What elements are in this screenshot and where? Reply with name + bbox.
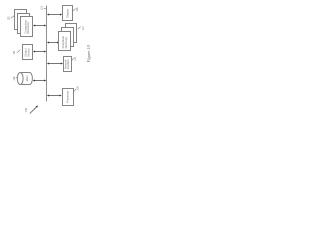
stack A back rect — [15, 10, 27, 30]
box G — [63, 89, 74, 106]
box F — [64, 57, 72, 72]
box B — [23, 45, 33, 60]
label 108 (box D) — [73, 7, 79, 12]
svg-text:100: 100 — [25, 107, 28, 112]
wire: bus to stack E (double arrow) — [47, 42, 59, 44]
svg-text:Device: Device — [27, 48, 31, 57]
label 114 (box F) — [72, 56, 78, 60]
svg-text:110: 110 — [41, 6, 44, 10]
stack E front rect with text — [59, 32, 71, 51]
wire: bus to box G (double arrow) — [47, 95, 62, 97]
svg-text:Mem: Mem — [25, 75, 29, 82]
label 112 (stack E) — [78, 26, 85, 30]
svg-text:116: 116 — [76, 86, 79, 90]
page background — [0, 0, 97, 120]
svg-text:Display: Display — [66, 8, 70, 17]
wire: stack A to bus (double arrow) — [33, 25, 46, 27]
svg-text:Processor: Processor — [66, 91, 70, 103]
svg-text:106: 106 — [13, 76, 16, 81]
label 106 (cylinder) — [13, 76, 17, 81]
label 104 (box B) — [13, 50, 20, 55]
stack A front rect with text — [21, 17, 33, 37]
bus line (system bus) — [46, 6, 48, 102]
wire: bus to box D (double arrow) — [47, 14, 62, 16]
svg-text:108: 108 — [76, 7, 79, 12]
stack A middle rect — [18, 14, 30, 34]
label 100 with arrow (bottom) — [25, 106, 38, 114]
cylinder C (storage drum) — [17, 73, 32, 85]
stack E middle rect — [62, 28, 74, 47]
svg-text:102: 102 — [8, 16, 11, 21]
bus label 110 (top) — [41, 6, 46, 10]
svg-text:Device(s): Device(s) — [26, 22, 30, 33]
label 102 (stack A) — [8, 16, 15, 21]
svg-text:Figure 10: Figure 10 — [86, 44, 91, 63]
stack E back rect — [66, 24, 77, 43]
box D — [63, 6, 73, 21]
svg-text:Device(s): Device(s) — [64, 37, 68, 48]
wire: bus to box F (double arrow) — [47, 63, 63, 65]
label 116 (box G) — [74, 86, 79, 91]
svg-text:Interface: Interface — [66, 59, 70, 70]
wire: cylinder to bus (double arrow) — [33, 80, 47, 82]
wire: box B to bus (double arrow) — [33, 51, 46, 53]
svg-text:104: 104 — [13, 50, 16, 55]
figure label — [86, 44, 91, 63]
svg-text:112: 112 — [82, 26, 85, 30]
svg-text:114: 114 — [74, 56, 77, 60]
